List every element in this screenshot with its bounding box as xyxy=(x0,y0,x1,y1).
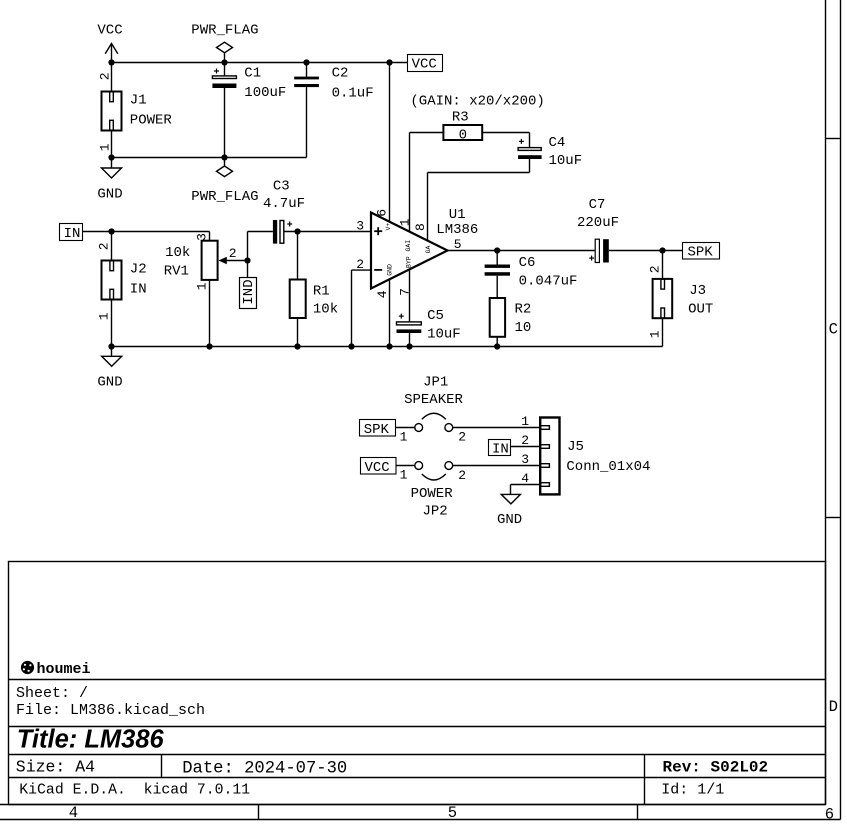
node junction-rail-pin2 xyxy=(348,343,354,349)
svg-text:10uF: 10uF xyxy=(427,327,461,343)
svg-text:Sheet: /: Sheet: / xyxy=(16,685,88,702)
svg-text:LM386: LM386 xyxy=(436,222,478,238)
svg-text:Rev: S02L02: Rev: S02L02 xyxy=(663,759,769,777)
svg-text:PWR_FLAG: PWR_FLAG xyxy=(191,189,258,205)
node junction-rail-rv1 xyxy=(206,343,212,349)
svg-text:RV1: RV1 xyxy=(164,263,189,279)
svg-text:POWER: POWER xyxy=(130,113,173,129)
node title-rev xyxy=(663,759,769,777)
node junction-vcc-pin6 xyxy=(386,59,392,65)
resistor R3 xyxy=(443,109,482,143)
svg-text:C7: C7 xyxy=(589,197,606,213)
wire frame-tick-right2 xyxy=(826,517,841,519)
node GAIN note xyxy=(410,93,544,109)
node title-file xyxy=(16,702,205,719)
node frame-number-6 xyxy=(825,805,834,823)
svg-text:SPEAKER: SPEAKER xyxy=(404,392,463,408)
svg-text:0.1uF: 0.1uF xyxy=(332,86,374,102)
svg-text:2: 2 xyxy=(458,468,466,483)
node junction-out-c6 xyxy=(494,247,500,253)
capacitor C6 xyxy=(485,251,578,299)
node junction-in-j2 xyxy=(108,228,114,234)
svg-text:R1: R1 xyxy=(313,284,330,300)
node pin6 number xyxy=(375,209,390,217)
svg-text:10k: 10k xyxy=(165,245,190,261)
op-amp U1 xyxy=(371,207,478,289)
svg-text:2: 2 xyxy=(97,72,112,80)
svg-text:GND: GND xyxy=(497,512,522,528)
node title-block-box xyxy=(9,562,826,805)
wire frame-bottom-inner xyxy=(0,804,826,806)
node junction-gndtop-j1 xyxy=(108,154,114,160)
node title-kicad xyxy=(19,783,250,799)
capacitor C2 xyxy=(294,63,373,158)
svg-text:0.047uF: 0.047uF xyxy=(519,274,578,290)
wire c4-to-pin8 xyxy=(428,159,530,241)
node pin4 number xyxy=(375,290,390,298)
svg-text:1: 1 xyxy=(97,143,112,151)
svg-text:JP1: JP1 xyxy=(423,375,448,391)
node junction-rail-r1 xyxy=(294,343,300,349)
capacitor C1 xyxy=(212,63,286,158)
svg-text:SPK: SPK xyxy=(364,422,390,438)
connector J2 xyxy=(96,232,146,347)
ground top xyxy=(97,158,122,203)
svg-text:3: 3 xyxy=(356,219,364,234)
svg-text:Title: LM386: Title: LM386 xyxy=(17,726,165,754)
wire frame-tick-bottom2 xyxy=(637,805,639,820)
svg-text:3: 3 xyxy=(521,452,529,467)
svg-text:5: 5 xyxy=(448,804,457,822)
node junction-vcc-c1 xyxy=(221,59,227,65)
wire spk-to-jp1 xyxy=(395,427,415,429)
node SPK label right xyxy=(683,243,720,261)
svg-text:C: C xyxy=(829,321,838,339)
node pin5 number xyxy=(454,237,462,252)
svg-text:Size: A4: Size: A4 xyxy=(16,757,95,776)
resistor R1 xyxy=(290,232,338,347)
svg-text:J2: J2 xyxy=(130,262,147,278)
svg-text:J5: J5 xyxy=(567,439,584,455)
svg-text:2: 2 xyxy=(356,257,364,272)
svg-text:2: 2 xyxy=(458,430,466,445)
ground main xyxy=(97,347,122,391)
svg-text:Date: 2024-07-30: Date: 2024-07-30 xyxy=(182,759,347,778)
svg-text:2: 2 xyxy=(647,265,662,273)
node junction-rail-pin4 xyxy=(386,343,392,349)
svg-text:10k: 10k xyxy=(313,301,338,317)
node junction-out-j3 xyxy=(659,247,665,253)
svg-text:2: 2 xyxy=(229,246,237,261)
node frame-number-5 xyxy=(448,804,457,822)
svg-text:POWER: POWER xyxy=(411,486,454,502)
connector J1 xyxy=(97,63,172,158)
svg-text:(GAIN: x20/x200): (GAIN: x20/x200) xyxy=(410,93,544,109)
potentiometer RV1 xyxy=(164,233,248,346)
node pin1 number xyxy=(397,218,412,226)
svg-text:GAI: GAI xyxy=(405,240,412,252)
power PWR_FLAG top xyxy=(191,23,258,63)
resistor R2 xyxy=(490,298,532,347)
wire title-line-3 xyxy=(9,754,826,756)
node title-title xyxy=(17,726,165,754)
node VCC label xyxy=(408,55,443,73)
svg-text:100uF: 100uF xyxy=(244,85,286,101)
svg-text:4: 4 xyxy=(375,290,390,298)
node frame-letter-C xyxy=(829,321,838,339)
wire title-divider-size-date xyxy=(161,755,163,778)
svg-text:GND: GND xyxy=(97,375,122,391)
wire output-net xyxy=(448,250,595,252)
svg-text:C1: C1 xyxy=(244,65,261,81)
wire frame-tick-bottom1 xyxy=(258,805,260,820)
svg-text:C5: C5 xyxy=(427,308,444,324)
wire pin6-riser xyxy=(389,63,391,222)
connector J3 xyxy=(647,251,713,347)
svg-text:IN: IN xyxy=(130,282,147,298)
svg-text:VCC: VCC xyxy=(365,460,390,476)
svg-text:1: 1 xyxy=(194,282,209,290)
wire j5pin4-to-gnd xyxy=(511,485,541,495)
svg-text:PWR_FLAG: PWR_FLAG xyxy=(191,23,258,39)
wire pin1-riser xyxy=(410,133,444,232)
node junction-c3-r1 xyxy=(294,228,300,234)
capacitor C3 xyxy=(263,178,305,243)
capacitor C5 xyxy=(397,308,461,346)
power PWR_FLAG bottom xyxy=(191,158,258,205)
svg-text:OUT: OUT xyxy=(688,301,713,317)
wire in-to-rv1 xyxy=(83,232,210,241)
ground j5 xyxy=(497,494,522,528)
svg-text:R2: R2 xyxy=(515,302,532,318)
node junction-vcc-c2 xyxy=(303,59,309,65)
node IN label j5 xyxy=(489,440,511,458)
node IND label xyxy=(240,278,258,309)
svg-text:10uF: 10uF xyxy=(549,153,583,169)
svg-text:C2: C2 xyxy=(332,66,349,82)
wire vcc-rail xyxy=(112,62,408,64)
svg-text:8: 8 xyxy=(413,223,428,231)
node pin3 number xyxy=(356,219,364,234)
wire c3-to-pin3 xyxy=(284,231,371,233)
wire gnd-rail-main xyxy=(112,346,663,348)
svg-text:VCC: VCC xyxy=(97,23,122,39)
node VCC label jp2 xyxy=(361,458,397,476)
wire title-line-2 xyxy=(9,726,826,728)
node junction-gndtop-c1 xyxy=(221,154,227,160)
svg-text:6: 6 xyxy=(375,209,390,217)
node junction-rail-j2 xyxy=(108,343,114,349)
node title-date xyxy=(182,759,347,778)
jumper JP1 xyxy=(400,375,467,445)
node junction-wiper xyxy=(244,257,250,263)
svg-text:V+: V+ xyxy=(385,223,392,231)
power VCC symbol xyxy=(97,23,122,63)
node title-id xyxy=(661,781,724,798)
svg-text:IN: IN xyxy=(492,441,509,457)
node title-sheet xyxy=(16,685,88,702)
node SPK label jp1 xyxy=(360,420,396,438)
wire title-line-4 xyxy=(9,777,826,779)
node logo-houmei xyxy=(21,661,91,678)
node pin7 number xyxy=(397,288,412,296)
svg-text:JP2: JP2 xyxy=(423,503,448,519)
svg-text:1: 1 xyxy=(647,330,662,338)
svg-text:C3: C3 xyxy=(273,178,290,194)
svg-text:GA: GA xyxy=(425,245,432,253)
wire frame-right-inner xyxy=(825,0,827,805)
svg-text:GND: GND xyxy=(97,187,122,203)
svg-text:C6: C6 xyxy=(519,255,536,271)
svg-text:Id: 1/1: Id: 1/1 xyxy=(661,781,724,798)
svg-text:2: 2 xyxy=(521,433,529,448)
wire pin2-net xyxy=(352,270,372,346)
wire c7-to-spk xyxy=(609,250,683,252)
svg-text:J1: J1 xyxy=(130,93,147,109)
svg-text:SPK: SPK xyxy=(688,244,714,260)
jumper JP2 xyxy=(400,462,467,520)
svg-text:J3: J3 xyxy=(689,283,706,299)
wire wiper-down-to-ind xyxy=(247,261,249,278)
svg-text:KiCad E.D.A. kicad 7.0.11: KiCad E.D.A. kicad 7.0.11 xyxy=(19,783,250,799)
svg-text:6: 6 xyxy=(825,805,834,823)
node pin2 number xyxy=(356,257,364,272)
svg-text:File: LM386.kicad_sch: File: LM386.kicad_sch xyxy=(16,702,205,719)
svg-text:houmei: houmei xyxy=(37,661,91,678)
wire pin7-riser xyxy=(409,270,411,322)
svg-text:2: 2 xyxy=(96,242,111,250)
node pin8 number xyxy=(413,223,428,231)
svg-text:IND: IND xyxy=(241,279,257,304)
wire title-line-1 xyxy=(9,679,826,681)
svg-text:1: 1 xyxy=(400,429,408,444)
capacitor C4 xyxy=(518,135,582,169)
node frame-letter-D xyxy=(829,698,838,716)
svg-text:Conn_01x04: Conn_01x04 xyxy=(566,459,650,475)
svg-text:BYP: BYP xyxy=(406,256,413,268)
wire jp1-to-j5pin1 xyxy=(453,427,541,429)
wire frame-bottom-outer xyxy=(0,819,841,821)
node frame-number-4 xyxy=(69,804,78,822)
wire wiper-up-to-c3 xyxy=(248,232,273,261)
svg-text:VCC: VCC xyxy=(412,56,437,72)
wire vcc-to-jp2 xyxy=(396,465,415,467)
wire frame-tick-right1 xyxy=(826,138,841,140)
svg-text:1: 1 xyxy=(96,312,111,320)
node junction-vcc-j1 xyxy=(108,59,114,65)
wire gnd-rail-top xyxy=(112,157,307,159)
node title-size xyxy=(16,757,95,776)
svg-text:R3: R3 xyxy=(452,109,469,125)
node junction-rail-r2 xyxy=(494,343,500,349)
svg-text:4: 4 xyxy=(69,804,78,822)
node junction-rail-c5 xyxy=(406,343,412,349)
svg-text:C4: C4 xyxy=(549,135,566,151)
wire jp2-to-j5pin3 xyxy=(453,465,541,467)
svg-text:IN: IN xyxy=(64,226,81,242)
svg-text:0: 0 xyxy=(459,127,467,143)
svg-text:220uF: 220uF xyxy=(577,215,619,231)
capacitor C7 xyxy=(577,197,619,263)
svg-text:1: 1 xyxy=(400,468,408,483)
wire in-to-j5pin2 xyxy=(511,446,541,448)
svg-text:1: 1 xyxy=(521,414,529,429)
wire title-divider-rev xyxy=(644,755,646,805)
svg-text:4.7uF: 4.7uF xyxy=(263,196,305,212)
svg-text:5: 5 xyxy=(454,237,462,252)
wire r3-to-c4 xyxy=(482,133,529,148)
svg-text:10: 10 xyxy=(515,320,532,336)
wire pin4-riser xyxy=(389,279,391,346)
svg-text:GND: GND xyxy=(386,264,393,276)
wire frame-right-outer xyxy=(840,0,842,820)
node IN label left xyxy=(60,224,83,242)
svg-text:U1: U1 xyxy=(449,207,466,223)
connector J5 xyxy=(521,414,650,495)
svg-text:D: D xyxy=(829,698,838,716)
